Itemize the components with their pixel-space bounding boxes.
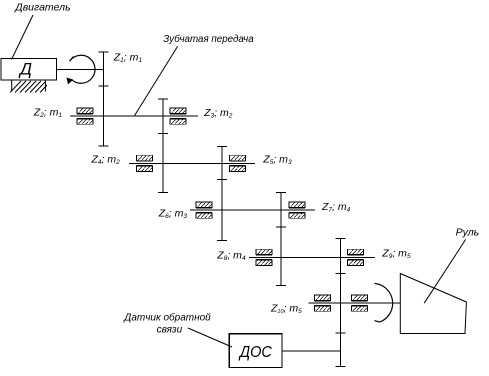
svg-text:ДОС: ДОС — [238, 344, 272, 361]
svg-text:связи: связи — [157, 325, 183, 336]
svg-text:Д: Д — [18, 59, 32, 78]
svg-text:Z9; m5: Z9; m5 — [381, 247, 411, 260]
svg-text:Z4; m2: Z4; m2 — [91, 153, 121, 166]
svg-text:Z6; m3: Z6; m3 — [158, 207, 188, 220]
svg-text:Z10; m5: Z10; m5 — [270, 302, 302, 315]
svg-text:Z7; m4: Z7; m4 — [321, 201, 351, 214]
svg-text:Z5; m3: Z5; m3 — [262, 154, 292, 167]
svg-text:Датчик обратной: Датчик обратной — [123, 312, 211, 324]
svg-text:Z2; m1: Z2; m1 — [33, 106, 63, 119]
svg-text:Z8; m4: Z8; m4 — [216, 249, 246, 262]
svg-text:Двигатель: Двигатель — [14, 2, 70, 14]
svg-text:Z1; m1: Z1; m1 — [113, 52, 143, 64]
svg-text:Z3; m2: Z3; m2 — [203, 107, 233, 120]
svg-text:Руль: Руль — [456, 227, 480, 239]
svg-text:Зубчатая передача: Зубчатая передача — [163, 33, 254, 45]
